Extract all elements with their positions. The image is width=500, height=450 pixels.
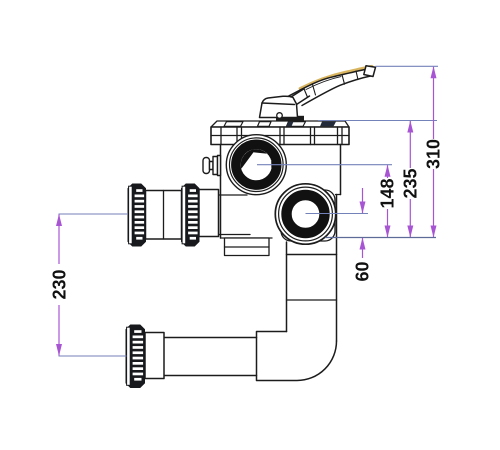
valve lid top edge [211, 121, 349, 127]
flange bolt divisions [220, 127, 222, 145]
svg-text:148: 148 [378, 178, 398, 208]
drain knob [203, 158, 210, 174]
handle arm segment lines [313, 85, 316, 96]
flange mid line [211, 135, 349, 137]
arrow 235 bottom [407, 226, 413, 238]
center line port P2 [306, 213, 369, 215]
handle clamp bar [276, 116, 304, 121]
union nut N3 (bottom pipe) [126, 325, 145, 388]
valve flange band [211, 127, 349, 145]
left pipe mid line [163, 191, 165, 240]
dim line 60 [362, 188, 364, 213]
body side boss bottom line [219, 234, 250, 236]
union nut N1 (left pipe, left) [128, 184, 146, 246]
arrow 60 bottom [360, 238, 366, 250]
left pipe body cylinder [199, 190, 219, 237]
bottom pipe [164, 337, 257, 339]
down pipe joint line [287, 299, 337, 301]
dim line 310 [433, 67, 435, 139]
reference line valve base [325, 237, 436, 239]
handle arm yellow highlight top [300, 66, 372, 88]
svg-text:235: 235 [400, 168, 420, 198]
lid slot 4 [320, 122, 336, 127]
handle arm top edge [286, 69, 370, 98]
valve bottom line [287, 254, 337, 256]
arrow 230 bottom [56, 344, 62, 356]
svg-text:310: 310 [424, 139, 444, 169]
body side boss top line [219, 194, 247, 196]
extension line left pipe [59, 213, 129, 215]
handle root links [291, 89, 304, 97]
lid slot 2 [258, 122, 272, 127]
elbow [257, 332, 337, 381]
handle base [260, 96, 298, 117]
dim line 148 [387, 165, 389, 178]
dim line 230 [58, 215, 60, 265]
handle arm yellow highlight bottom [330, 75, 371, 88]
lid slot 1 [224, 122, 243, 127]
handle arm inner line [306, 77, 341, 90]
sight glass reflection [241, 149, 272, 169]
port P2 (front) [275, 184, 335, 244]
lid slot 3 [287, 122, 306, 127]
arrow 148 bottom [385, 226, 391, 238]
extension line handle tip [376, 65, 439, 67]
union nut N2 (left pipe, right) [182, 184, 200, 246]
arrow 230 top [56, 214, 62, 226]
left pipe [146, 191, 182, 240]
handle pivot pin [277, 113, 283, 119]
arrow 310 bottom [431, 226, 437, 238]
valve body right edge [340, 145, 342, 195]
extension line valve top [318, 120, 437, 122]
down pipe [286, 242, 288, 332]
extension line bottom pipe [59, 355, 127, 357]
svg-text:230: 230 [50, 269, 70, 299]
handle arm bottom edge [302, 76, 371, 106]
arrow 310 top [431, 66, 437, 78]
handle arm body fill [286, 69, 371, 106]
body foot [225, 238, 270, 256]
dimension graphics [50, 66, 444, 356]
arrow 235 top [407, 121, 413, 133]
bottom pipe collar [145, 333, 164, 379]
handle tip cap [364, 66, 376, 77]
svg-text:60: 60 [353, 261, 373, 281]
arrow 60 top [360, 202, 366, 214]
center line port P1 [257, 164, 392, 166]
arrow 148 top [385, 165, 391, 177]
dim line 235 [409, 121, 411, 168]
port P1 (top sight glass) [226, 135, 286, 195]
handle assembly [260, 66, 376, 121]
body bottom-left ledge [221, 237, 273, 239]
valve body left edge [220, 145, 222, 239]
